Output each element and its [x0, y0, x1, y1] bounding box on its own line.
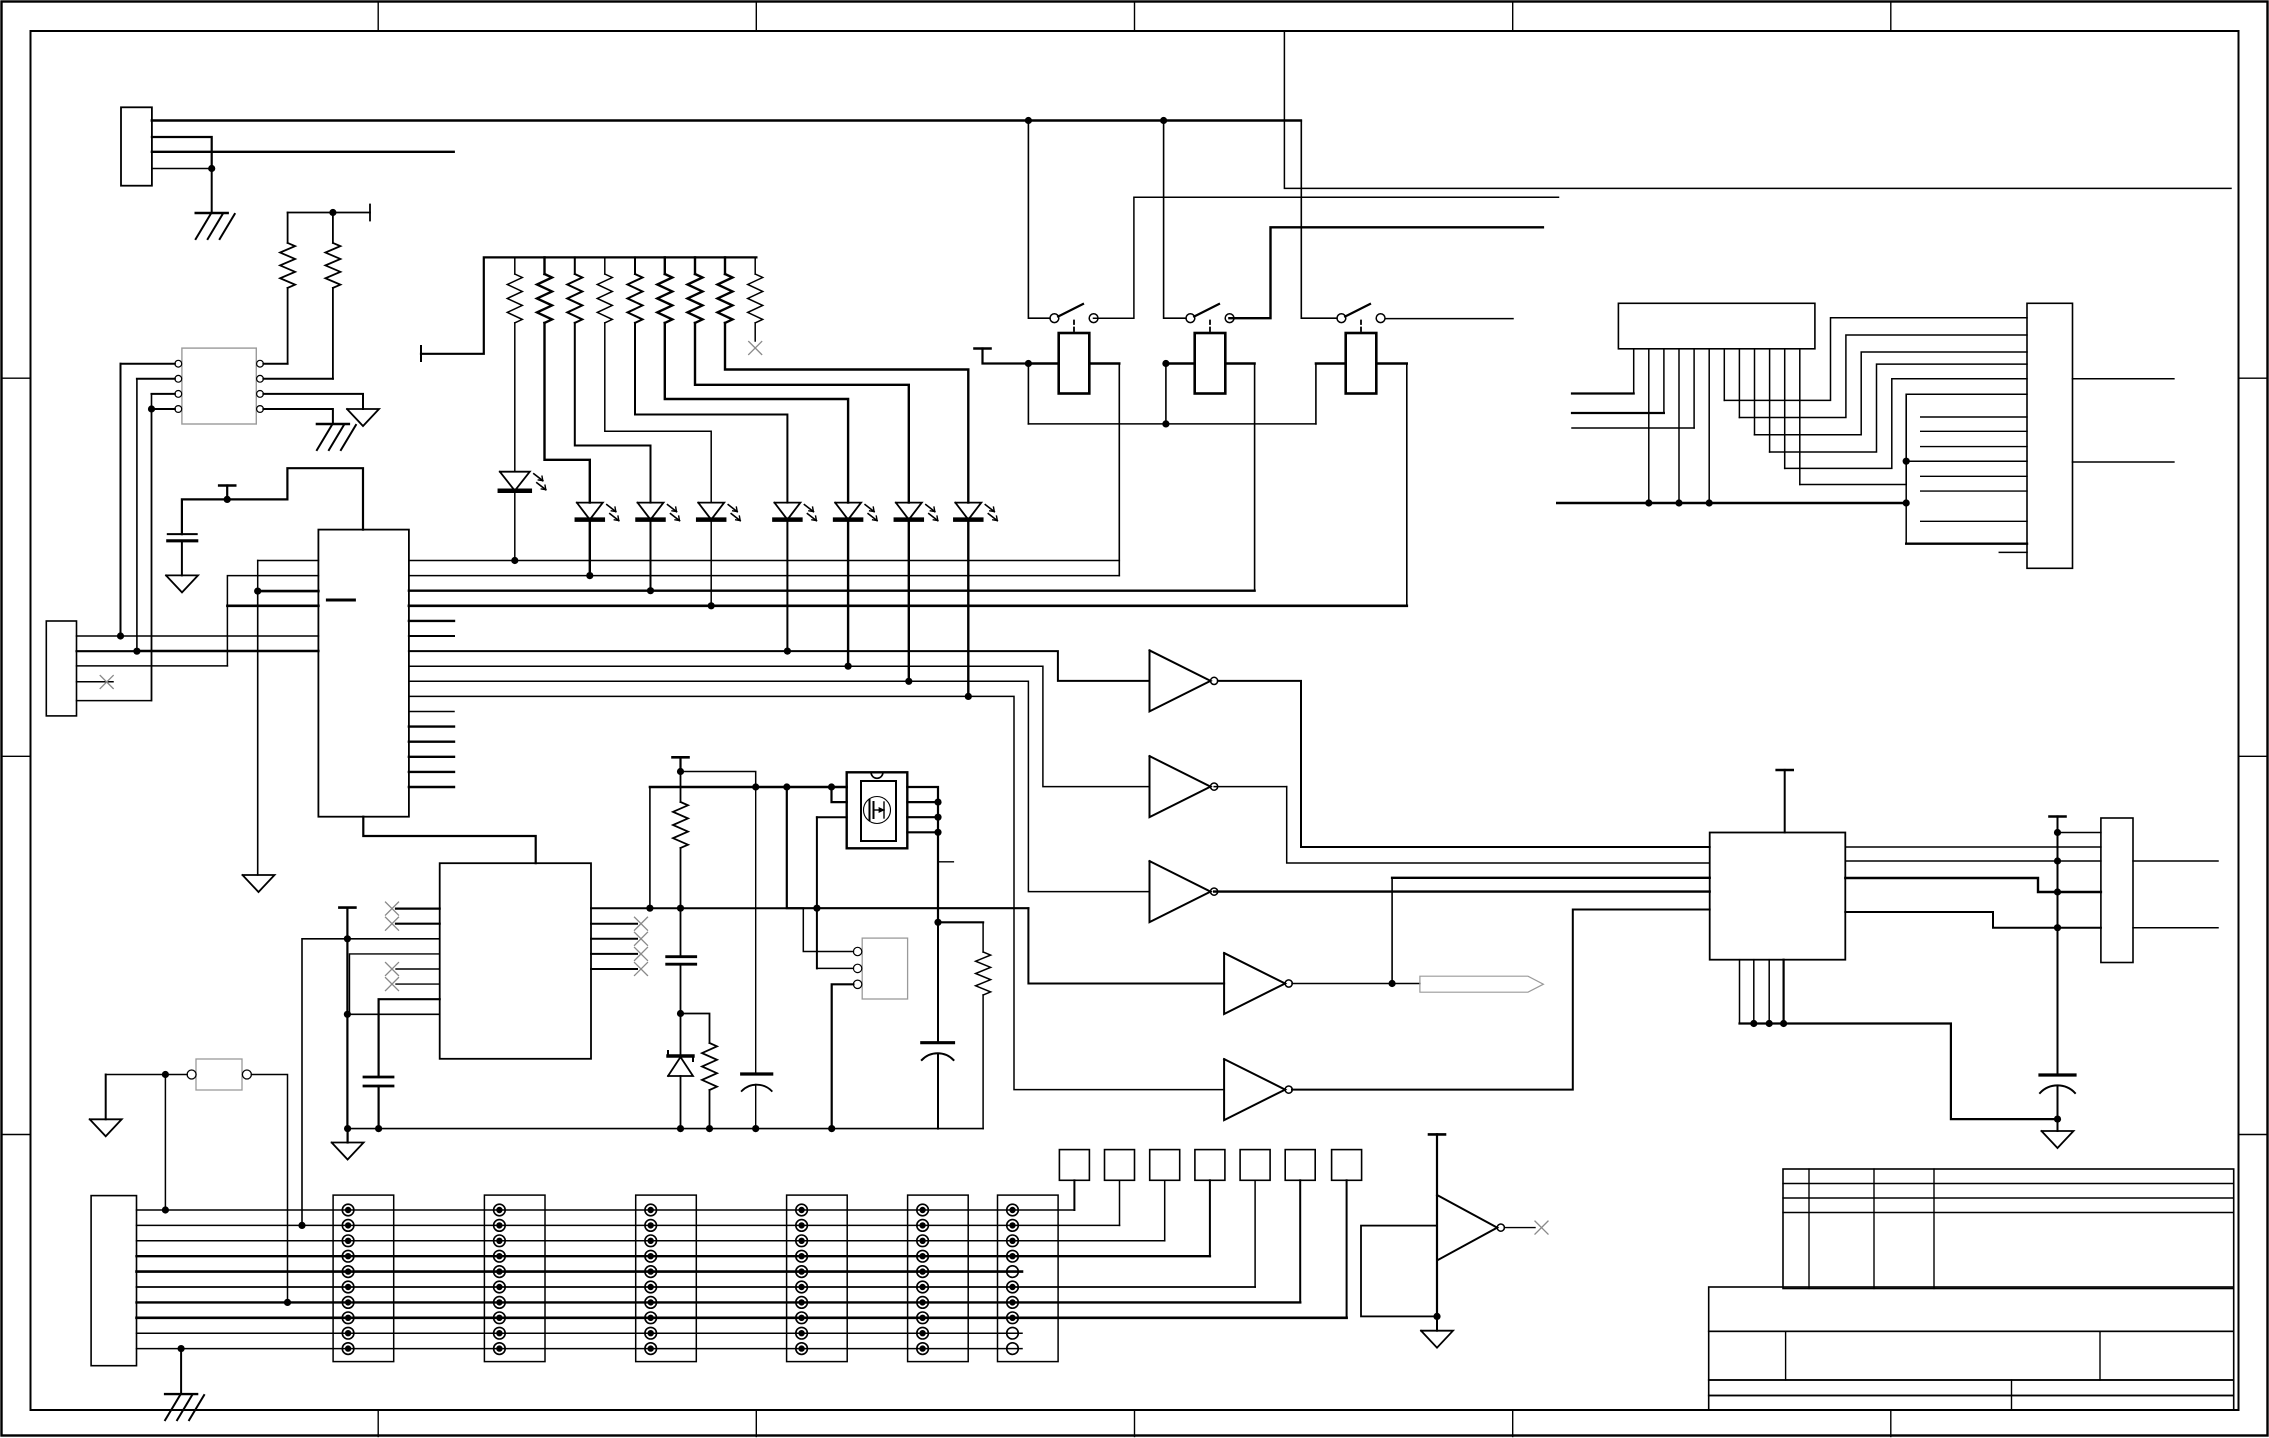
resistor R4 — [537, 257, 552, 323]
wire U4 p8 — [347, 1013, 439, 1015]
wire U2 left pin6 — [137, 650, 319, 652]
wire comparator out — [1504, 1227, 1535, 1229]
wire net C vertical — [151, 394, 153, 701]
junction F1 row7 — [284, 1299, 291, 1306]
relay K1 coil — [1059, 321, 1090, 394]
IC U8 body — [1710, 833, 1846, 960]
wire R4 to LED2 — [545, 323, 590, 503]
ground triangle F1 — [90, 1119, 122, 1136]
VCC tee comparator — [1429, 1133, 1445, 1136]
wire F1 left — [106, 1074, 187, 1076]
resistor R11 — [748, 257, 763, 323]
wire U7 p1 stub — [1572, 392, 1634, 394]
wire K3 feed — [1301, 121, 1337, 319]
wire F1 gnd — [105, 1075, 107, 1120]
junction rail zener — [677, 1125, 684, 1132]
IC U4 body — [440, 863, 591, 1059]
junction inv4 out — [1389, 980, 1396, 987]
wire J4 right stub1 — [2073, 378, 2174, 380]
LED D8 — [955, 503, 997, 521]
opto U1 body — [182, 348, 256, 424]
wire xtal pin3 — [832, 984, 854, 1128]
wire R9 to LED7 — [695, 323, 909, 503]
wire inv4 out — [1292, 983, 1420, 985]
crystal Y1 body — [862, 938, 907, 999]
wire q1 pin5 — [907, 831, 938, 833]
header JP4 — [787, 1195, 848, 1362]
wires U7 staircase — [1724, 318, 2027, 485]
wire S7 drop — [1346, 1180, 1348, 1318]
wire LED3 cathode — [650, 520, 652, 591]
VCC tee U8 — [1777, 769, 1793, 772]
junction R12 bottom — [677, 905, 684, 912]
wire inv3 out — [1214, 890, 1710, 892]
X U4 r4 — [635, 947, 648, 960]
junction K2 coil — [1162, 360, 1169, 367]
junction F1 tap — [162, 1071, 169, 1078]
ground hatched bottom — [165, 1394, 204, 1420]
wire F1 right — [251, 1075, 287, 1303]
inverter U3B — [1150, 756, 1218, 817]
wire xtal pin2 riser — [817, 817, 854, 968]
pad S4 — [1195, 1150, 1225, 1181]
X U4 r5 — [635, 963, 648, 976]
VCC tee Q1 — [673, 757, 689, 769]
LED D6 — [835, 503, 877, 521]
connector J4 — [2027, 303, 2073, 568]
junction tee Q1 — [677, 768, 684, 775]
relay K2 contact — [1186, 304, 1234, 323]
wire U1 pin4 left — [152, 408, 175, 410]
wires U8 bottom pins — [1740, 960, 1784, 1024]
junction J2 pin2 net B — [133, 648, 140, 655]
wire bus4 left — [227, 604, 318, 607]
wire LED7 cathode — [908, 520, 910, 682]
wire step1 — [409, 651, 1150, 681]
wire R7 to LED5 — [635, 323, 787, 503]
wire K2 loop left — [1165, 364, 1167, 424]
X U4 r2 — [635, 917, 648, 930]
junction xtal pin2 riser — [813, 905, 820, 912]
junction C2 zener — [677, 1010, 684, 1017]
wire U4 p7 — [379, 999, 440, 1077]
ground hatched U1 pin5 — [317, 424, 356, 450]
wire U1 pin5 right — [263, 409, 333, 424]
wire F1 tap down — [164, 1075, 166, 1211]
wire xtal pin1 — [803, 908, 853, 951]
pad S7 — [1332, 1150, 1362, 1181]
wire U8 right 847 — [1845, 846, 2101, 848]
wire top net 188 — [1284, 31, 2231, 188]
X U4 r3 — [635, 932, 648, 945]
wire thin drop — [755, 787, 757, 1074]
wire R3 to LED1 — [514, 323, 516, 472]
power net U4 left — [339, 908, 355, 1129]
junction rail K1 feed — [1025, 117, 1032, 124]
wire K1 loop left — [1027, 364, 1029, 424]
junction F1 row1 — [162, 1206, 169, 1213]
wire riser6 bottom — [1906, 394, 2027, 543]
wire xtal line to inv4 — [1028, 908, 1224, 983]
wire row10 gnd — [180, 1349, 182, 1395]
wire K1 feed — [1028, 121, 1050, 319]
wire gnd drop x258 — [257, 591, 259, 875]
junction rail K2 feed — [1160, 117, 1167, 124]
junction q1 pin2 jog — [828, 783, 835, 790]
X comparator out — [1535, 1221, 1548, 1234]
wire C1 to U2 top — [182, 468, 363, 534]
capacitor C6 polar — [2040, 1075, 2075, 1131]
header JP5 — [908, 1195, 969, 1362]
wire mosfet gate line — [650, 786, 847, 788]
wire R8 to LED6 — [665, 323, 848, 503]
wire S4 drop — [1209, 1180, 1211, 1256]
wire U4 p1 nc — [396, 907, 440, 909]
block U5 body — [1361, 1226, 1437, 1317]
junction J1 pin4 node — [208, 165, 215, 172]
wire K3 loop left — [1315, 364, 1317, 424]
wire U1 pin7 right to R2 — [263, 378, 333, 380]
wire U8 right 912 — [1845, 912, 2101, 928]
wire U7 p5 stub — [1572, 427, 1694, 429]
zener D9 — [668, 1014, 693, 1129]
stub q1 right tick — [938, 861, 953, 863]
wire K2 feed — [1164, 121, 1186, 319]
junction bus3 left — [254, 588, 261, 595]
wire U4 p3 — [302, 939, 440, 1226]
wire J4 right stub2 — [2073, 461, 2174, 463]
relay K1 contact — [1050, 304, 1098, 323]
connector J5 — [2101, 818, 2133, 963]
wire xtal net A — [591, 907, 803, 909]
wire R11 nc stub — [754, 323, 756, 341]
VCC tee J5 — [2050, 815, 2066, 818]
wire to R13 — [938, 921, 983, 923]
wire U8 top pin — [1784, 770, 1786, 833]
wire step2 — [409, 666, 1150, 786]
connector J2 — [46, 621, 76, 716]
wire row 832 — [2058, 832, 2101, 834]
junction 892 vcc — [2054, 888, 2061, 895]
resistor R14 — [702, 1043, 717, 1129]
ground triangle rail — [332, 1143, 364, 1160]
capacitor C1 — [168, 534, 197, 575]
junction riser6 b — [1903, 499, 1910, 506]
resistor R1 — [280, 213, 295, 364]
junction U1 pin4 — [148, 405, 155, 412]
junction row10 gnd tap — [178, 1345, 185, 1352]
junction LED3 on bus3 — [647, 587, 654, 594]
connector J1 — [121, 107, 152, 185]
LED D3 — [638, 503, 680, 521]
wire J1 pin3 stub — [152, 151, 454, 153]
junction LED8 on step4 — [965, 693, 972, 700]
wire q1 pin8 — [907, 787, 938, 922]
fuse F1 pins — [187, 1070, 251, 1079]
wire q1 pin2 jog — [832, 787, 847, 802]
wire LED8 cathode — [967, 520, 969, 697]
X U4 p5 — [386, 963, 399, 976]
connector J3 — [91, 1196, 136, 1366]
wire U2 bottom pin to U4 top — [363, 817, 535, 864]
wire R6 to LED4 — [605, 323, 711, 503]
no-connect X J2 pin4 — [100, 676, 113, 689]
wires U4 right nc stubs — [591, 924, 637, 969]
inverter U3D — [1224, 953, 1292, 1014]
junction VCC tee — [224, 496, 231, 503]
inverter U3A — [1150, 650, 1218, 711]
X U4 p1 — [386, 902, 399, 915]
wire bus3 — [409, 590, 1255, 592]
wires bottom bus rows — [137, 1210, 1347, 1349]
header JP1 — [333, 1195, 394, 1362]
junction 861 vcc — [2054, 857, 2061, 864]
junction rail C3 — [752, 1125, 759, 1132]
title block lower bands — [1709, 1380, 2234, 1410]
wire step3 — [409, 681, 1150, 891]
wire S6 drop — [1299, 1180, 1301, 1302]
junction R2 top — [329, 209, 336, 216]
X U4 p2 — [386, 917, 399, 930]
X U4 p6 — [386, 978, 399, 991]
title block upper band — [1709, 1287, 2234, 1331]
wire relay bottom line — [1028, 423, 1316, 425]
resistor R8 — [657, 257, 672, 323]
LED D2 — [577, 503, 619, 521]
LED D5 — [774, 503, 816, 521]
junction drain riser — [646, 905, 653, 912]
IC U7 body — [1618, 303, 1815, 349]
wire K3 contact out — [1385, 318, 1513, 320]
ground triangle U1 pin6 — [347, 409, 379, 426]
junction U7 p4 — [1675, 499, 1682, 506]
wire K2 coil wire — [1166, 362, 1255, 364]
wire U1 pin3 left — [152, 393, 175, 395]
junction K1 coil — [1025, 360, 1032, 367]
wire step4 — [409, 696, 1224, 1089]
ground triangle mid-left — [243, 875, 275, 892]
resistor R10 — [718, 257, 733, 323]
wire U1 pin2 left — [137, 378, 175, 380]
wire U4 p2 nc — [396, 923, 440, 925]
wire tee to thin drop — [681, 772, 756, 788]
wire J2 pin1 — [77, 635, 122, 637]
ground triangle comparator — [1421, 1331, 1453, 1348]
capacitor C2 — [667, 908, 696, 1013]
resistor R3 — [507, 257, 522, 323]
wire J1 gnd drop — [211, 169, 213, 214]
wire bus3 left — [258, 590, 319, 593]
resistor R6 — [597, 257, 612, 323]
wire bus1 — [409, 560, 1119, 562]
mosfet Q1 body — [847, 772, 908, 848]
junction C6 gnd — [2054, 1116, 2061, 1123]
wire K3 loop right — [1406, 364, 1408, 606]
wire U7 p3 stub — [1572, 412, 1664, 414]
wire LED6 cathode — [847, 520, 849, 667]
ground triangle right — [2042, 1131, 2074, 1148]
inverter U3E — [1224, 1059, 1292, 1120]
wire K2 loop right — [1254, 364, 1256, 591]
resistor R2 — [325, 213, 340, 379]
wire xtal line right — [1392, 877, 1710, 879]
wire S2 drop — [1119, 1180, 1121, 1225]
fuse F1 body — [196, 1059, 242, 1090]
junction LED4 on bus4 — [708, 602, 715, 609]
resistor R5 — [567, 257, 582, 323]
wire J1 pin2 — [152, 137, 212, 169]
wire zener to R14 top — [681, 1014, 710, 1044]
capacitor C4 — [364, 1077, 393, 1129]
pad S5 — [1240, 1150, 1270, 1181]
wire U1 pin8 right to R1 — [263, 363, 287, 365]
IC U2 inner mark — [327, 599, 354, 602]
junction comparator gnd — [1433, 1313, 1440, 1320]
pad S3 — [1150, 1150, 1180, 1181]
header JP3 — [636, 1195, 697, 1362]
junction U8 bp4 — [1780, 1020, 1787, 1027]
wire inv5 out — [1292, 910, 1710, 1090]
resistor R12 — [673, 772, 688, 909]
wire S3 drop — [1164, 1180, 1166, 1241]
wire rail gnd stub — [347, 1129, 349, 1143]
title block revision table — [1783, 1169, 2234, 1289]
junction rail C4 — [375, 1125, 382, 1132]
wire net B vertical — [136, 379, 138, 651]
junction q1 pin6 — [934, 814, 941, 821]
junction J2 pin1 net A — [117, 632, 124, 639]
junction U8 bp3 — [1766, 1020, 1773, 1027]
wire J5 vcc vertical — [2057, 817, 2059, 1076]
resistor R7 — [628, 257, 643, 323]
junction LED7 on step3 — [905, 678, 912, 685]
wire R1 R2 top — [288, 205, 370, 221]
junction thin drop on gate — [752, 783, 759, 790]
wire R10 to LED8 — [725, 323, 968, 503]
header JP6 — [998, 1195, 1059, 1362]
wire LED2 cathode — [589, 520, 591, 576]
junction U7 p6 — [1706, 499, 1713, 506]
wire K3 coil wire — [1316, 362, 1407, 364]
wire U2 left pin5 — [121, 635, 318, 637]
wire U4p3 row2 junction — [298, 1222, 305, 1229]
pad S1 — [1059, 1150, 1089, 1181]
pad S2 — [1105, 1150, 1135, 1181]
LED D7 — [896, 503, 938, 521]
junction 927 vcc — [2054, 924, 2061, 931]
wire U2 left pin1 — [258, 560, 319, 562]
wire gate drop to xtal line — [787, 787, 1029, 908]
junction K2 loop bottom — [1162, 420, 1169, 427]
ground triangle below C1 — [166, 575, 198, 592]
junction LED6 on step2 — [845, 663, 852, 670]
LED D4 — [698, 503, 740, 521]
crystal Y1 pins — [853, 947, 861, 988]
wire inv1 out — [1218, 681, 1710, 847]
wire U4 p6 nc — [396, 983, 440, 985]
ground hatched below J1 — [196, 213, 235, 239]
wire U1 pin1 left — [121, 363, 175, 365]
wire S5 drop — [1254, 1180, 1256, 1287]
comparator U6 — [1437, 1195, 1504, 1261]
wires J4 short stubs — [1921, 417, 2027, 521]
wire bottom rail — [348, 1128, 984, 1130]
junction rail xtal3 — [828, 1125, 835, 1132]
junction rail R14 — [706, 1125, 713, 1132]
wire drain riser — [649, 787, 651, 908]
wire J2 pin3 — [77, 665, 228, 667]
wire comparator vcc — [1436, 1134, 1438, 1316]
wire K1 loop right — [1118, 364, 1120, 576]
wire R5 to LED3 — [575, 323, 651, 503]
relay K3 contact — [1337, 304, 1385, 323]
net flag label — [1420, 976, 1544, 992]
junction q1 pin7 — [934, 799, 941, 806]
LED D1 — [500, 472, 546, 491]
wire LED1 cathode — [514, 491, 516, 561]
no-connect X R11 — [749, 342, 762, 355]
wire U1 pin6 right — [263, 394, 363, 409]
wire bus4 — [409, 604, 1407, 607]
header JP2 — [484, 1195, 545, 1362]
wire q1 pin7 — [907, 801, 938, 803]
junction q1 pin5 — [934, 829, 941, 836]
wire J2 pin2 — [77, 650, 137, 652]
opto U1 pins — [175, 360, 263, 412]
junction U8 bp2 — [1750, 1020, 1757, 1027]
IC U2 body — [318, 530, 409, 817]
stub J4 bottom left pin — [1999, 551, 2027, 553]
pad S6 — [1285, 1150, 1315, 1181]
wire U4 p4 — [350, 954, 440, 1014]
junction LED2 on bus2 — [586, 572, 593, 579]
resistor R13 — [976, 922, 991, 1128]
resistor R9 — [688, 257, 703, 323]
wire J1 pin1 to top rail — [152, 119, 1301, 122]
wire bus2 — [409, 575, 1119, 577]
wire J1 pin4 — [152, 168, 212, 170]
wire inv2 out — [1214, 787, 1710, 863]
wire J5 right stub2 — [2133, 927, 2218, 929]
wire J2 pin4 nc — [77, 681, 114, 683]
junction U7 p2 — [1645, 499, 1652, 506]
relay K2 coil — [1195, 321, 1226, 394]
wire resistor rail top — [421, 257, 756, 361]
relay K3 coil — [1346, 321, 1377, 394]
mosfet Q1 symbol — [861, 781, 896, 841]
junction gate drop — [783, 783, 790, 790]
capacitor C3 polar — [742, 1074, 772, 1129]
wire row 461 — [1906, 460, 2027, 462]
wire inv4 feedback — [1391, 878, 1393, 984]
capacitor C5 polar — [922, 922, 954, 1128]
wire U8 right 861 — [1845, 860, 2101, 862]
title block middle band — [1709, 1331, 2234, 1380]
wire gnd bus 503 — [1557, 502, 1906, 504]
wire U8 right 878 — [1845, 878, 2101, 892]
wires U7 pins down — [1634, 349, 1800, 503]
junction rail gnd — [344, 1125, 351, 1132]
wire U4 p5 nc — [396, 968, 440, 970]
inverter U3C — [1150, 861, 1218, 922]
wire J5 right stub1 — [2133, 860, 2218, 862]
wire K1 coil wire — [1028, 362, 1119, 364]
wire bus1-left drop — [257, 561, 259, 592]
wire VCC tee relay — [975, 349, 1029, 364]
junction U4 p3 — [344, 935, 351, 942]
wire S1 drop — [1073, 1180, 1075, 1210]
junction U4 p8 — [344, 1011, 351, 1018]
